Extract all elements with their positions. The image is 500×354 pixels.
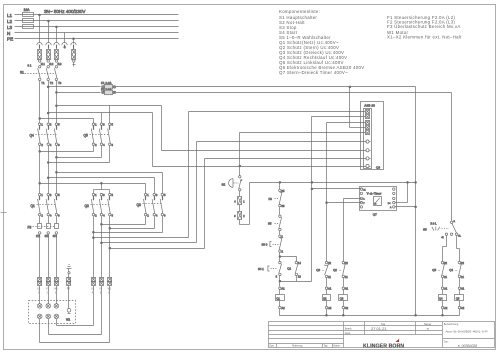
wire Q4-Q5 output join phase 2 <box>47 146 109 194</box>
svg-text:4: 4 <box>50 214 52 218</box>
svg-text:e_00SB4028: e_00SB4028 <box>458 344 477 348</box>
svg-text:U<: U< <box>388 202 392 205</box>
wire terminals to motor row1 <box>40 286 69 309</box>
brake unit Q6 ASB 20 <box>361 102 384 170</box>
svg-text:16A: 16A <box>24 8 31 12</box>
svg-text:5: 5 <box>112 193 114 197</box>
switch S2 Not-Halt <box>222 176 243 191</box>
coil Q1 <box>276 287 286 316</box>
svg-text:S2: S2 <box>222 182 226 186</box>
svg-text:Q2: Q2 <box>323 297 327 301</box>
wire timer A1 feed <box>312 188 362 190</box>
switch S4 Start <box>258 261 282 286</box>
wire T2 tap to brake line <box>47 112 152 166</box>
svg-text:Q5: Q5 <box>456 297 460 301</box>
switch S3 Stop <box>262 235 284 262</box>
coil Q2 with interlock <box>316 261 332 316</box>
svg-text:27.01.21: 27.01.21 <box>371 326 387 331</box>
svg-text:Name: Name <box>334 345 341 348</box>
svg-text:1: 1 <box>95 123 97 127</box>
svg-text:S3 0: S3 0 <box>262 242 268 246</box>
svg-text:3: 3 <box>156 193 158 197</box>
fuse L1 <box>38 50 46 67</box>
svg-text:Q1: Q1 <box>276 297 280 301</box>
svg-text:1: 1 <box>41 193 43 197</box>
svg-text:1L1: 1L1 <box>41 63 46 66</box>
svg-text:Q4: Q4 <box>449 268 453 272</box>
svg-text:Q5: Q5 <box>84 134 88 138</box>
wire phase tap to Q3 pole 3 <box>47 177 154 194</box>
svg-text:1: 1 <box>95 193 97 197</box>
wire F3 outputs to terminals <box>40 235 57 278</box>
svg-text:Y: Y <box>363 203 365 205</box>
svg-text:T2: T2 <box>50 81 54 85</box>
svg-text:Gepr.: Gepr. <box>345 332 351 335</box>
svg-text:2: 2 <box>147 214 149 218</box>
svg-text:21: 21 <box>328 275 331 279</box>
svg-text:T3: T3 <box>58 81 62 85</box>
svg-text:Typ:: Typ: <box>444 340 449 343</box>
svg-text:A: A <box>390 206 392 209</box>
wire F2 feeder vertical <box>451 93 453 221</box>
wire T1 vertical <box>39 81 41 124</box>
wire L2 drop <box>46 20 51 49</box>
svg-text:5L3: 5L3 <box>58 63 63 66</box>
wire Q2 output columns <box>94 216 110 278</box>
contactor Q3 (Dreieck) <box>137 193 167 218</box>
coil Q5 with interlock <box>449 261 465 316</box>
wire S5 to Q4 branch <box>443 236 447 262</box>
wire brake sense V <box>101 242 197 244</box>
svg-text:X1–X2 Klemmen für ext. Not: X1–X2 Klemmen für ext. Not–Halt <box>387 34 462 39</box>
wire T2 vertical <box>48 81 50 124</box>
svg-text:1: 1 <box>41 123 43 127</box>
wire motor delta loop V2 <box>49 286 102 335</box>
svg-text:Q3: Q3 <box>316 268 320 272</box>
wire control line node A <box>250 182 417 184</box>
svg-text:2: 2 <box>282 250 284 254</box>
svg-text:PE: PE <box>7 37 13 42</box>
wire A2 return rail <box>280 314 460 316</box>
contactor Q5 (Linkslauf) <box>84 123 114 148</box>
svg-text:21: 21 <box>444 275 447 279</box>
svg-text:Tag: Tag <box>324 345 329 348</box>
fuse PE holder <box>72 50 76 67</box>
svg-text:Bezeichnung: Bezeichnung <box>444 323 459 326</box>
wire brake circle4 feed <box>153 165 367 167</box>
svg-text:A1: A1 <box>345 287 349 291</box>
contactor Q1 (Netz) <box>31 193 61 218</box>
svg-text:Q6: Q6 <box>376 165 380 169</box>
wire S5 to Q5 branch <box>457 236 460 262</box>
svg-text:F3: F3 <box>269 197 273 201</box>
wire delta link Q3-2 <box>101 216 146 226</box>
contactor Q2 (Stern) <box>85 193 114 218</box>
svg-text:6: 6 <box>112 214 114 218</box>
wire start branch rejoin <box>279 280 312 282</box>
svg-text:2: 2 <box>95 143 97 147</box>
svg-text:W1: W1 <box>66 318 71 322</box>
wire T3 vertical <box>56 81 58 124</box>
svg-text:3: 3 <box>103 193 105 197</box>
svg-text:F3 Überlastschutz Bereich M: F3 Überlastschutz Bereich Mx,xA <box>387 24 461 29</box>
svg-text:3: 3 <box>50 193 52 197</box>
node PE rail <box>7 37 179 42</box>
svg-text:A2: A2 <box>345 306 349 310</box>
svg-text:NL: NL <box>458 236 461 238</box>
svg-text:2: 2 <box>243 215 245 218</box>
wire L3 drop <box>54 26 59 50</box>
terminal X row (motor terminals) <box>38 277 112 294</box>
svg-text:6: 6 <box>58 143 60 147</box>
svg-text:A2: A2 <box>444 306 448 310</box>
svg-text:A1: A1 <box>328 287 332 291</box>
node L3 rail <box>7 25 179 30</box>
wire Q2 column vertical <box>326 123 328 262</box>
wire brake terminal 3 feed <box>327 122 366 124</box>
logo KLINGER BORN <box>363 339 404 350</box>
svg-text:A2: A2 <box>328 306 332 310</box>
svg-text:S1: S1 <box>20 71 24 75</box>
wire brake terminal 4 feed from F1 <box>349 86 366 128</box>
coil Q4 with interlock <box>432 261 448 316</box>
switch S1 main switch <box>20 64 62 85</box>
contact S5 auto position <box>268 215 282 235</box>
wire Q2 star bridge <box>94 182 110 193</box>
fuse 16A main <box>23 8 34 29</box>
wire start branch split <box>279 256 297 262</box>
svg-text:21: 21 <box>461 275 464 279</box>
svg-text:1: 1 <box>147 193 149 197</box>
fuse F1 control 2.0A <box>47 81 415 89</box>
svg-text:4: 4 <box>50 143 52 147</box>
svg-text:Auto–St–Dr/ASB20–400/L–0–R: Auto–St–Dr/ASB20–400/L–0–R <box>446 329 489 333</box>
wire L1 drop <box>37 14 42 49</box>
svg-text:A2: A2 <box>282 306 286 310</box>
svg-text:S5: S5 <box>268 221 272 225</box>
title block <box>269 322 495 348</box>
wire delta link Q3-6 <box>93 216 163 234</box>
svg-text:2: 2 <box>95 214 97 218</box>
wire brake terminal 5 feed <box>240 133 366 176</box>
svg-text:Q1: Q1 <box>31 204 35 208</box>
svg-text:3: 3 <box>103 123 105 127</box>
switch S5 selector R-0-L <box>423 221 462 239</box>
wire PE drop <box>71 38 76 50</box>
svg-text:13: 13 <box>298 274 301 278</box>
svg-text:2: 2 <box>41 143 43 147</box>
svg-text:Q4: Q4 <box>439 297 443 301</box>
svg-text:Q3: Q3 <box>340 297 344 301</box>
svg-text:Q5: Q5 <box>432 268 436 272</box>
svg-text:V1: V1 <box>46 289 50 291</box>
svg-text:U2: U2 <box>91 289 95 291</box>
svg-text:A2: A2 <box>461 306 465 310</box>
wire motor delta loop W2 <box>57 286 94 326</box>
contactor Q4 (Rechtslauf) <box>30 123 61 148</box>
svg-text:Q4: Q4 <box>30 134 34 138</box>
svg-text:3: 3 <box>234 215 236 218</box>
wire control bypass vertical <box>311 117 313 282</box>
svg-text:1: 1 <box>243 200 245 203</box>
wire timer U loop <box>395 183 408 203</box>
svg-text:21: 21 <box>345 275 348 279</box>
svg-text:R: R <box>454 221 456 223</box>
svg-text:6: 6 <box>112 143 114 147</box>
svg-text:Q2: Q2 <box>333 268 337 272</box>
svg-text:Tr: Tr <box>427 327 430 331</box>
wire Q4-Q5 output join phase 3 <box>56 146 102 194</box>
ground PE symbol <box>67 265 72 278</box>
svg-text:6: 6 <box>58 214 60 218</box>
svg-text:5: 5 <box>112 123 114 127</box>
svg-text:F3: F3 <box>28 226 32 230</box>
wire motor delta loop U2 <box>40 286 110 343</box>
svg-text:3L2: 3L2 <box>49 63 54 66</box>
svg-text:L2: L2 <box>7 19 13 24</box>
wire brake terminal 1 feed <box>189 112 366 238</box>
svg-text:5: 5 <box>164 193 166 197</box>
svg-text:3N~ 50Hz 400/230V: 3N~ 50Hz 400/230V <box>44 9 86 14</box>
svg-text:Y–Δ–Timer: Y–Δ–Timer <box>367 191 382 195</box>
svg-text:A1: A1 <box>444 287 448 291</box>
svg-text:3: 3 <box>50 123 52 127</box>
node L2 rail <box>7 19 179 24</box>
component list text <box>279 9 462 75</box>
coil Q3 with interlock <box>333 261 349 316</box>
svg-text:5: 5 <box>58 123 60 127</box>
svg-text:3: 3 <box>276 274 278 278</box>
svg-text:Bearb.: Bearb. <box>345 328 353 331</box>
wire brake sense W <box>109 247 205 249</box>
svg-text:Q1: Q1 <box>287 266 291 270</box>
wire T3 tap to brake line <box>56 105 162 151</box>
node N rail <box>7 31 179 36</box>
overload relay F3 <box>28 216 59 238</box>
wire brake circle1 feed <box>197 142 367 243</box>
svg-text:Q7: Q7 <box>373 212 377 216</box>
svg-text:Zust.: Zust. <box>269 345 275 348</box>
svg-text:L1: L1 <box>7 13 13 18</box>
svg-text:4: 4 <box>234 200 236 203</box>
fuse F2 control 2.0A <box>56 87 452 94</box>
svg-text:6: 6 <box>164 214 166 218</box>
svg-text:Änderung: Änderung <box>292 345 303 348</box>
svg-text:S4 1: S4 1 <box>258 267 264 271</box>
svg-text:2: 2 <box>41 214 43 218</box>
svg-text:S5: S5 <box>423 228 427 232</box>
wire Q3 column vertical <box>343 199 345 262</box>
fuse L2 <box>46 50 54 67</box>
svg-text:0 1: 0 1 <box>28 64 32 68</box>
svg-text:Q7 Stern–Dreieck Timer 400V: Q7 Stern–Dreieck Timer 400V~ <box>279 70 348 75</box>
wire delta link Q3-4 <box>109 216 155 230</box>
wire brake sense U <box>93 237 189 239</box>
svg-text:A: A <box>363 198 365 201</box>
wire Q4-Q5 output join phase 1 <box>39 146 94 194</box>
svg-text:Komponentenliste:: Komponentenliste: <box>279 9 320 14</box>
svg-text:14: 14 <box>298 261 301 265</box>
svg-text:Name: Name <box>424 322 431 326</box>
svg-text:4: 4 <box>103 214 105 218</box>
wire S2 return loop <box>240 183 250 225</box>
wire brake circle2 feed <box>162 150 367 152</box>
svg-text:A1: A1 <box>461 287 465 291</box>
wire phase tap to Q3 pole 1 <box>39 182 146 193</box>
wire F1 feeder vertical <box>415 87 417 316</box>
timer Q7 <box>360 187 397 217</box>
fuse L3 <box>55 50 63 67</box>
svg-text:Q3: Q3 <box>137 203 141 207</box>
svg-text:V2: V2 <box>99 289 103 291</box>
contact Q1 13-14 <box>287 261 301 282</box>
svg-text:Q2: Q2 <box>85 204 89 208</box>
wire brake circle3 feed <box>205 159 367 249</box>
svg-text:2T1: 2T1 <box>36 235 41 238</box>
terminal X2 <box>234 205 245 220</box>
wire T1 tap to Q5 <box>39 118 94 124</box>
wire timer A2 to feeder <box>395 206 417 208</box>
svg-text:ASB 20: ASB 20 <box>364 103 375 107</box>
svg-text:A1: A1 <box>282 287 286 291</box>
wire phase tap to Q3 pole 5 <box>56 171 163 193</box>
svg-text:4: 4 <box>103 143 105 147</box>
svg-text:R 0 L: R 0 L <box>431 222 438 225</box>
wire timer A feed <box>344 198 362 200</box>
svg-text:KLINGER BORN: KLINGER BORN <box>363 343 404 349</box>
svg-text:5: 5 <box>58 193 60 197</box>
contact F3 95-96 <box>269 183 285 215</box>
svg-text:4: 4 <box>156 214 158 218</box>
svg-text:4R: 4R <box>441 237 444 239</box>
node L1 rail <box>7 13 179 18</box>
svg-text:N: N <box>7 31 10 36</box>
svg-text:L3: L3 <box>7 25 13 30</box>
svg-text:T1: T1 <box>41 81 45 85</box>
svg-text:96: 96 <box>282 204 285 208</box>
wire brake terminal 2 feed <box>312 116 366 118</box>
wire N stub <box>62 33 67 49</box>
motor W1 <box>29 301 76 324</box>
wire timer Y feed <box>327 202 362 204</box>
terminal X1 <box>234 191 245 205</box>
